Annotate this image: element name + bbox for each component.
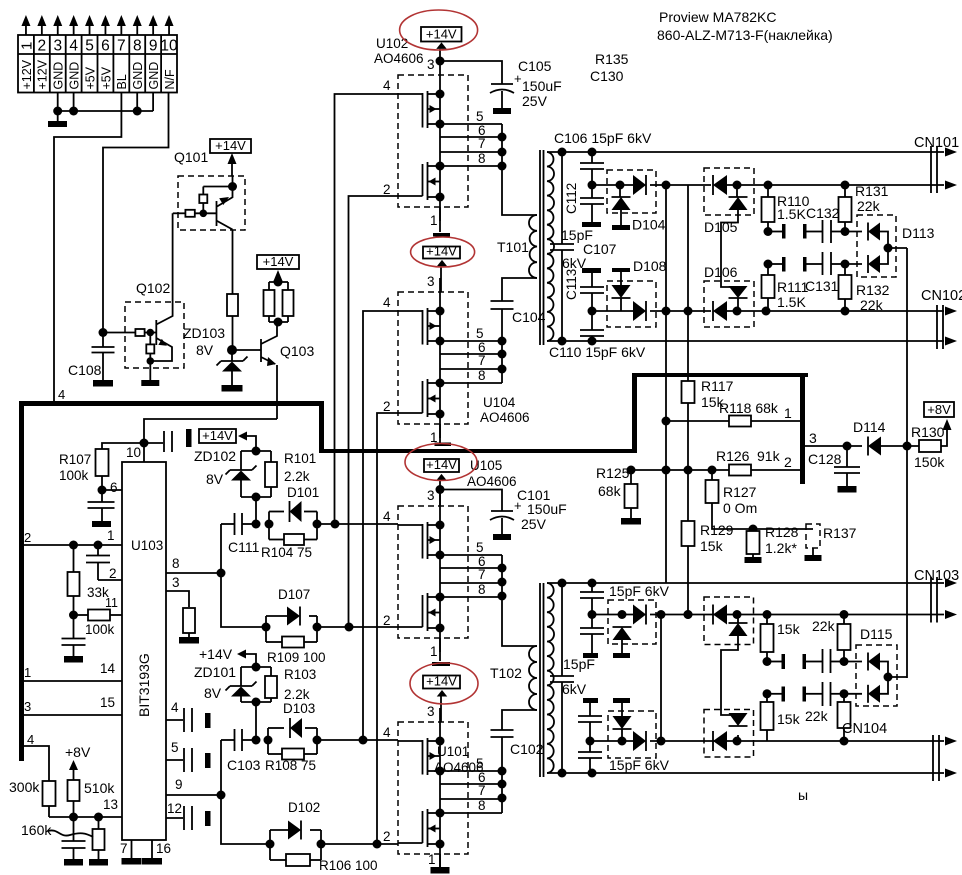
- wire BL pin 7 to thick net: [54, 93, 121, 404]
- plate bars T102 upper: [583, 653, 630, 658]
- svg-text:C102: C102: [510, 741, 544, 757]
- svg-text:1: 1: [430, 213, 438, 228]
- svg-text:6: 6: [110, 480, 118, 495]
- svg-text:R126: R126: [716, 448, 750, 464]
- svg-text:510k: 510k: [84, 780, 115, 796]
- svg-text:+14V: +14V: [202, 428, 233, 443]
- wire CN103 row junctions: [657, 610, 945, 619]
- U103 pin 4 capacitor: [166, 700, 211, 732]
- U103 pin 16 to ground: [152, 840, 171, 858]
- svg-text:R111: R111: [777, 279, 809, 295]
- wire gate drive U104 pin4 to U101 pin4: [363, 311, 398, 740]
- svg-text:15k: 15k: [777, 711, 801, 727]
- svg-text:R106 100: R106 100: [319, 858, 378, 873]
- svg-text:8: 8: [478, 368, 486, 383]
- resistor R137 dashed: [753, 524, 857, 555]
- ground below Q102: [141, 380, 159, 386]
- svg-text:8: 8: [478, 798, 486, 813]
- capacitor C113: [564, 269, 604, 316]
- svg-text:C131: C131: [805, 278, 839, 294]
- svg-text:R137: R137: [823, 525, 857, 541]
- resistor 510k: [68, 780, 116, 817]
- ground C128: [838, 486, 857, 493]
- svg-text:1: 1: [784, 405, 792, 421]
- svg-text:5: 5: [171, 740, 179, 755]
- wire D104 output down the sense column: [662, 181, 671, 584]
- ground R125: [621, 518, 641, 525]
- wire gate drive U102 pin2 to U105 pin2: [349, 196, 399, 627]
- svg-text:13: 13: [103, 797, 118, 812]
- wire D105 row to CN101 pin2: [764, 181, 945, 190]
- wire net 1 to pin 14: [24, 661, 122, 681]
- wire gate drive U104 pin2 to U101 pin2: [377, 413, 398, 844]
- svg-text:8: 8: [478, 151, 486, 166]
- resistor R129 15k: [682, 466, 734, 620]
- plate bar above C113: [582, 268, 601, 273]
- capacitor C103: [221, 729, 261, 773]
- svg-text:R132: R132: [856, 282, 890, 298]
- svg-text:U104: U104: [483, 395, 516, 410]
- diode D101 with resistor R104 75: [261, 501, 398, 560]
- U103 pin 7 to ground: [120, 840, 132, 858]
- dual MOSFET U105 AO4606 dashed box: [398, 506, 468, 638]
- svg-text:C111: C111: [228, 539, 260, 555]
- svg-text:860-ALZ-M713-F(наклейка): 860-ALZ-M713-F(наклейка): [657, 27, 833, 43]
- rectifier box upper lamp dashed: [704, 597, 754, 645]
- diode pair D106: [713, 286, 944, 321]
- U103 pin 9: [166, 777, 226, 800]
- svg-text:4: 4: [383, 725, 391, 740]
- U101 pin1 to ground: [439, 854, 441, 867]
- svg-text:GND: GND: [147, 62, 161, 90]
- capacitor at pin 6: [88, 490, 115, 527]
- svg-text:+8V: +8V: [65, 744, 91, 760]
- capacitors C132 row: [768, 205, 850, 243]
- transformer T101 core: [540, 150, 544, 345]
- thick bus line: [19, 373, 808, 761]
- capacitor C106 on stack: [580, 152, 604, 190]
- svg-text:AO4606: AO4606: [480, 410, 530, 425]
- wire pin8 node down to D107: [221, 524, 266, 627]
- svg-text:R101: R101: [284, 451, 316, 466]
- svg-text:7: 7: [117, 38, 126, 55]
- U103 pin 8: [166, 556, 226, 578]
- wire net 4 to resistor 300k: [23, 732, 49, 781]
- svg-text:C107: C107: [583, 241, 617, 257]
- resistor R125 68k: [596, 465, 638, 518]
- pin labels U105: [383, 488, 486, 659]
- dual MOSFET U104 internals: [398, 278, 502, 438]
- svg-text:10: 10: [126, 445, 141, 460]
- svg-text:15pF 6kV: 15pF 6kV: [609, 583, 670, 599]
- diode pair T102 lower: [590, 703, 944, 751]
- rectifier D106 dashed box: [704, 281, 754, 327]
- ground C101: [493, 534, 511, 540]
- svg-text:+12V: +12V: [20, 59, 34, 89]
- svg-text:4: 4: [383, 509, 391, 524]
- svg-text:D103: D103: [283, 701, 315, 716]
- svg-text:8V: 8V: [206, 471, 224, 487]
- resistor R130 150k: [911, 424, 947, 470]
- svg-text:160k: 160k: [21, 822, 52, 838]
- capacitor C105 150uF 25V: [440, 58, 562, 109]
- connector CN102: [921, 288, 962, 349]
- svg-text:R125: R125: [596, 465, 630, 481]
- svg-text:U101: U101: [437, 744, 469, 759]
- svg-text:2: 2: [109, 566, 117, 581]
- svg-text:R103: R103: [284, 667, 316, 682]
- svg-text:1.2k*: 1.2k*: [765, 540, 797, 556]
- wire D113 output column: [906, 248, 908, 678]
- svg-text:3: 3: [809, 430, 817, 446]
- svg-text:1: 1: [18, 42, 35, 50]
- connector J1 table: [18, 35, 177, 93]
- wire net 3 from thick bus to D114: [805, 430, 862, 451]
- svg-text:2.2k: 2.2k: [284, 469, 310, 484]
- svg-text:5: 5: [476, 540, 484, 555]
- connector J1 pin numbers 1-10: [18, 38, 178, 55]
- wire gate drive U102 pin4 to U105 pin4: [335, 94, 399, 524]
- svg-text:22k: 22k: [860, 297, 884, 313]
- svg-text:C106 15pF 6kV: C106 15pF 6kV: [554, 130, 652, 146]
- svg-text:GND: GND: [67, 62, 81, 90]
- resistor 100k to pin 11: [74, 596, 123, 637]
- svg-text:R109 100: R109 100: [267, 650, 326, 665]
- svg-text:C108: C108: [68, 362, 102, 378]
- capacitor C107 15pF 6kV on bus: [550, 152, 617, 341]
- wire ZD103 to Q103 base: [232, 349, 259, 351]
- svg-text:4: 4: [27, 732, 34, 747]
- svg-text:8: 8: [172, 556, 180, 571]
- ground below ZD103: [222, 385, 243, 392]
- svg-text:4: 4: [383, 78, 391, 93]
- svg-text:7: 7: [478, 567, 486, 582]
- wire net 3 to pin 15: [24, 695, 122, 715]
- svg-text:ZD102: ZD102: [194, 448, 236, 464]
- svg-text:5: 5: [476, 326, 484, 341]
- svg-text:1.5K: 1.5K: [777, 206, 806, 222]
- svg-text:D114: D114: [853, 419, 886, 435]
- resistor R132 22k: [839, 264, 890, 313]
- svg-text:91k: 91k: [757, 448, 781, 464]
- svg-text:R127: R127: [723, 484, 757, 500]
- wire to pin 13: [49, 797, 122, 822]
- svg-text:5: 5: [85, 38, 94, 55]
- svg-text:+12V: +12V: [36, 59, 50, 89]
- svg-text:4: 4: [69, 38, 78, 55]
- svg-text:7: 7: [120, 841, 128, 856]
- svg-text:15k: 15k: [700, 538, 724, 554]
- labels ZD101 8V: [194, 664, 236, 701]
- svg-text:22k: 22k: [805, 708, 829, 724]
- resistor R131 22k: [839, 183, 889, 232]
- wire T101 secondary bottom rail to CN102 pin2: [547, 337, 944, 346]
- wire U105 bus to T102 primary: [498, 555, 538, 646]
- diode pair D108: [592, 272, 711, 321]
- ground R128: [745, 557, 762, 563]
- svg-text:7: 7: [478, 353, 486, 368]
- resistor R118 68k with label 1: [666, 400, 800, 427]
- resistor R117 15k: [682, 185, 734, 521]
- svg-text:Q103: Q103: [280, 343, 314, 359]
- svg-text:R117: R117: [701, 378, 734, 394]
- resistor 22k upper lamp: [812, 615, 851, 667]
- IC U103 BIT3193G body: [122, 462, 166, 840]
- label ZD103 8V: [183, 325, 225, 358]
- capacitors between lower lamp resistors: [763, 682, 849, 706]
- svg-text:R128: R128: [765, 524, 799, 540]
- svg-text:4: 4: [171, 700, 179, 715]
- parallel resistors above Q103: [264, 278, 294, 327]
- capacitor C102: [491, 730, 544, 757]
- resistor 15k lower lamp: [761, 694, 801, 741]
- dual MOSFET U101 AO4606 dashed box: [398, 722, 468, 854]
- svg-text:68k: 68k: [598, 483, 622, 499]
- capacitor C128: [808, 446, 860, 486]
- dual MOSFET U105 internals: [398, 492, 502, 652]
- U103 pin 3 resistor to ground: [166, 575, 195, 637]
- diode pair D104: [592, 175, 666, 225]
- transistor Q102: [103, 213, 173, 380]
- U104 pin1 to thick bus: [435, 424, 452, 446]
- svg-text:C132: C132: [806, 205, 840, 221]
- svg-text:25V: 25V: [522, 93, 548, 109]
- diode D103 with resistor R108 75: [264, 718, 399, 773]
- svg-text:C113: C113: [564, 269, 579, 300]
- resistor below Q101: [227, 294, 238, 350]
- transformer T101 secondary winding: [547, 152, 554, 341]
- dual MOSFET U101 internals: [398, 708, 502, 868]
- svg-text:U105: U105: [470, 458, 502, 473]
- U103 pin 12 capacitor: [166, 801, 211, 830]
- svg-text:ZD103: ZD103: [183, 325, 225, 341]
- svg-text:9: 9: [149, 38, 158, 55]
- connector CN101: [914, 135, 959, 193]
- connector J1 pin arrows: [21, 15, 173, 35]
- svg-text:25V: 25V: [521, 516, 547, 532]
- resistor 15k upper lamp: [761, 615, 801, 667]
- resistor R107 100k: [59, 443, 144, 495]
- svg-text:R131: R131: [855, 183, 889, 199]
- capacitor 15pF 6kV on T102 bus: [550, 583, 595, 773]
- wire GND bus pins 3 4 8 9: [53, 93, 153, 116]
- wire C104 to U104 bus: [498, 309, 507, 383]
- pin labels U101: [383, 704, 486, 867]
- U105 pin1 to +14V bar: [432, 638, 450, 666]
- svg-text:100k: 100k: [85, 622, 115, 637]
- resistor 33k: [68, 545, 110, 620]
- wire sense row to R126: [631, 466, 729, 475]
- svg-text:8: 8: [478, 582, 486, 597]
- power label +14V for Q103: [257, 254, 299, 282]
- svg-text:4: 4: [383, 295, 391, 310]
- dual MOSFET U102 internals: [398, 61, 502, 221]
- svg-text:2: 2: [383, 613, 391, 628]
- dual MOSFET U102 AO4606 dashed box: [398, 75, 468, 207]
- svg-text:7: 7: [478, 136, 486, 151]
- svg-text:9: 9: [175, 777, 183, 792]
- plate bar below D104: [612, 225, 630, 230]
- svg-text:D113: D113: [902, 225, 935, 241]
- ground R137: [805, 555, 822, 561]
- svg-text:3: 3: [427, 704, 435, 719]
- plate bar below C112: [582, 222, 601, 227]
- rectifier D105 dashed box: [704, 168, 754, 215]
- svg-text:Q101: Q101: [174, 149, 208, 165]
- power label +8V: [924, 402, 954, 430]
- svg-text:D115: D115: [860, 626, 893, 642]
- svg-text:R108 75: R108 75: [265, 758, 316, 773]
- ground pin 3 resistor: [179, 637, 199, 644]
- svg-text:C110 15pF 6kV: C110 15pF 6kV: [549, 344, 646, 360]
- svg-text:1: 1: [107, 528, 115, 543]
- ground pin 16: [142, 858, 162, 865]
- resistor R127 0 Om: [706, 470, 758, 529]
- capacitors C131 row: [764, 252, 850, 294]
- rectifier D108 dashed box: [607, 281, 656, 327]
- U103 pin 6: [102, 480, 122, 495]
- svg-text:D108: D108: [633, 258, 667, 274]
- svg-text:10: 10: [160, 38, 178, 55]
- connector CN103: [914, 568, 959, 623]
- wire link between lamp return rows: [660, 615, 662, 742]
- svg-text:22k: 22k: [812, 618, 836, 634]
- wire C102 to U101 bus: [498, 737, 507, 813]
- svg-text:T101: T101: [497, 239, 529, 255]
- diode D114: [868, 437, 919, 456]
- rectifier D113 dashed box: [857, 215, 896, 277]
- labels ZD102 8V: [194, 448, 236, 487]
- diode D107 with resistor R109 100: [262, 607, 399, 666]
- svg-text:2: 2: [383, 399, 391, 414]
- svg-text:N/F: N/F: [163, 69, 177, 90]
- svg-text:D107: D107: [278, 587, 310, 602]
- svg-text:C130: C130: [590, 68, 624, 84]
- svg-text:C105: C105: [518, 58, 552, 74]
- svg-text:15pF 6kV: 15pF 6kV: [609, 757, 670, 773]
- capacitor C101 150uF 25V: [440, 487, 567, 534]
- rectifier box T102 upper dashed: [608, 600, 656, 644]
- svg-text:8: 8: [133, 38, 142, 55]
- transistor Q103: [259, 322, 277, 419]
- svg-text:T102: T102: [490, 665, 522, 681]
- diode pair D105: [713, 175, 768, 287]
- svg-text:+14V: +14V: [426, 674, 457, 689]
- diode pair D113: [845, 223, 907, 274]
- svg-text:AO4606: AO4606: [374, 51, 424, 66]
- svg-text:+14V: +14V: [215, 138, 246, 153]
- svg-text:+14V: +14V: [426, 27, 457, 42]
- svg-text:8V: 8V: [204, 685, 222, 701]
- capacitor C110 on stack: [580, 311, 604, 341]
- resistor 22k lower lamp: [805, 694, 851, 741]
- svg-text:1: 1: [428, 852, 436, 867]
- svg-text:14: 14: [100, 661, 116, 676]
- svg-text:+14V: +14V: [263, 254, 294, 269]
- labels U105 AO4606: [467, 458, 517, 489]
- capacitor C104: [491, 301, 546, 325]
- svg-text:R135: R135: [595, 51, 629, 67]
- resistor 300k: [9, 779, 56, 817]
- svg-text:7: 7: [478, 783, 486, 798]
- svg-text:2.2k: 2.2k: [284, 687, 310, 702]
- transformer T102 core: [540, 583, 544, 777]
- capacitor stack T102 lower: [578, 703, 602, 773]
- svg-text:CN102: CN102: [921, 288, 962, 304]
- U102 pin1 to +14V bar: [433, 207, 450, 237]
- capacitor stack T102 upper: [580, 583, 604, 653]
- resistor R111 1.5K: [762, 264, 809, 311]
- pin labels U102: [383, 57, 486, 228]
- svg-text:11: 11: [105, 596, 118, 610]
- resistor 160k: [21, 817, 105, 859]
- svg-text:3: 3: [427, 274, 435, 289]
- wire T101 primary to C104: [502, 278, 537, 301]
- U103 pin 10: [126, 439, 149, 463]
- svg-text:16: 16: [156, 841, 171, 856]
- svg-text:12: 12: [167, 801, 182, 816]
- svg-text:2: 2: [383, 182, 391, 197]
- svg-text:R129: R129: [700, 522, 734, 538]
- zener diode ZD103: [217, 345, 248, 385]
- connector J1 pin names +12V +12V GND GND +5V +5V BL GND GND N/F: [20, 59, 177, 89]
- capacitor below 510k: [62, 817, 86, 859]
- rectifier D115 dashed box: [856, 645, 897, 706]
- svg-text:3: 3: [53, 38, 62, 55]
- svg-text:D102: D102: [288, 800, 320, 815]
- wire T101 secondary top rail to CN101 pin1: [547, 148, 944, 157]
- wire T102 primary to C102: [502, 710, 537, 730]
- dual MOSFET U104 AO4606 dashed box: [398, 292, 468, 424]
- power label +14V circled above U104: [411, 237, 475, 292]
- rectifier box T102 lower dashed: [608, 711, 656, 758]
- svg-text:1.5K: 1.5K: [777, 294, 806, 310]
- wire T102 secondary bottom rail to CN104 pin2: [547, 769, 944, 778]
- power label +14V at ZD102: [199, 428, 256, 451]
- ground C105: [493, 108, 511, 114]
- plate bars T102 lower: [583, 698, 630, 703]
- labels U104 AO4606: [480, 395, 530, 425]
- diode pair lower lamp box: [713, 713, 748, 751]
- resistor R110 1.5K: [762, 185, 810, 236]
- diode pair upper lamp box: [713, 605, 748, 716]
- wire sense column to T102 top rail: [665, 582, 667, 584]
- svg-text:C128: C128: [808, 451, 842, 467]
- wire N/F pin 10 to C108: [99, 93, 169, 348]
- power label +14V circled above U105: [405, 444, 477, 507]
- capacitors between upper lamp resistors: [767, 649, 844, 673]
- wire Q103 emitter to pin 10 node: [144, 419, 277, 443]
- transistor Q101: [173, 176, 237, 294]
- transistor Q101 dashed box: [178, 176, 245, 230]
- power label +14V for Q101: [210, 138, 251, 176]
- svg-text:R107: R107: [59, 452, 91, 467]
- capacitor at pin 10: [144, 429, 192, 452]
- svg-text:R104 75: R104 75: [261, 545, 312, 560]
- transformer T101 primary winding: [529, 215, 537, 278]
- ground U101 pin1: [431, 867, 450, 874]
- svg-text:C103: C103: [227, 757, 261, 773]
- pin labels U104: [383, 274, 486, 445]
- ground below capacitor: [64, 656, 83, 663]
- diode pair T102 upper: [592, 605, 862, 654]
- svg-text:R118 68k: R118 68k: [719, 400, 779, 416]
- svg-text:1: 1: [430, 644, 438, 659]
- labels U102 AO4606: [374, 36, 424, 66]
- svg-text:+14V: +14V: [426, 457, 457, 472]
- svg-text:150uF: 150uF: [522, 78, 562, 94]
- svg-text:3: 3: [427, 488, 435, 503]
